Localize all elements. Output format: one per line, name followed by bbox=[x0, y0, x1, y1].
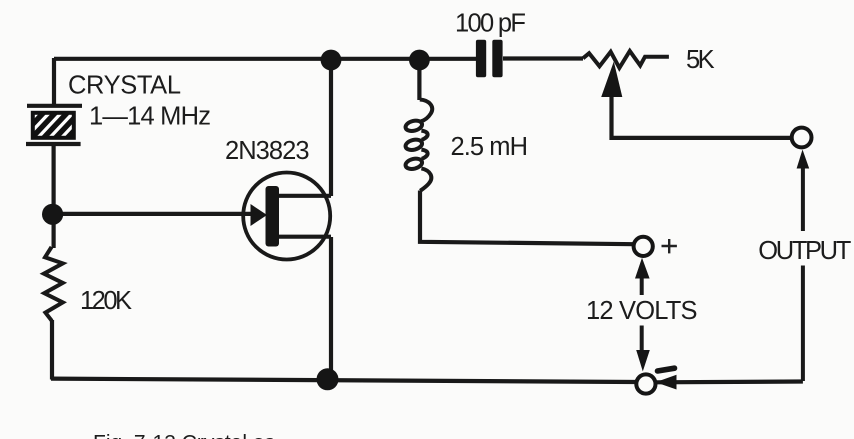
svg-text:5K: 5K bbox=[686, 46, 715, 74]
svg-text:100 pF: 100 pF bbox=[455, 10, 526, 38]
svg-text:OUTPUT: OUTPUT bbox=[758, 237, 851, 265]
svg-text:Fig. 7-13 Crystal os: Fig. 7-13 Crystal os bbox=[93, 432, 275, 439]
svg-text:2N3823: 2N3823 bbox=[225, 137, 310, 165]
svg-text:120K: 120K bbox=[80, 287, 132, 315]
svg-text:1—14 MHz: 1—14 MHz bbox=[89, 103, 211, 131]
svg-text:12 VOLTS: 12 VOLTS bbox=[586, 297, 698, 325]
svg-text:2.5 mH: 2.5 mH bbox=[451, 133, 529, 161]
svg-text:CRYSTAL: CRYSTAL bbox=[68, 72, 181, 100]
